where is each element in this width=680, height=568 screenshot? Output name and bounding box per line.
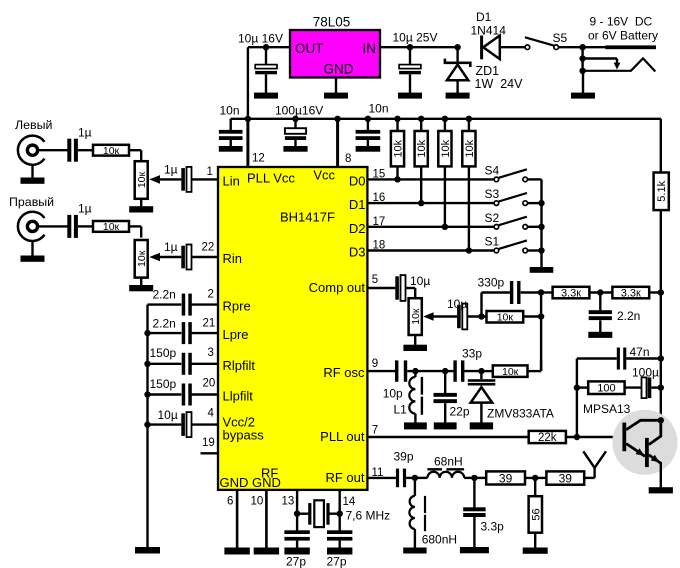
- svg-text:27p: 27p: [286, 555, 306, 568]
- ground pin 6: [224, 548, 249, 555]
- svg-text:10к: 10к: [410, 308, 422, 325]
- ground RCA left: [21, 165, 45, 184]
- resistor 100: [588, 381, 624, 394]
- wire rail to 3.3к: [541, 291, 553, 293]
- svg-text:1µ: 1µ: [164, 240, 178, 254]
- svg-text:RF osc: RF osc: [323, 365, 365, 380]
- wire 78L05 IN: [380, 46, 458, 48]
- svg-text:7,6 MHz: 7,6 MHz: [346, 509, 391, 523]
- svg-text:Vcc: Vcc: [313, 168, 335, 183]
- svg-text:47n: 47n: [630, 345, 650, 359]
- svg-text:10: 10: [251, 496, 264, 508]
- wire varactor 10к left: [481, 370, 492, 372]
- wire to pin 22 Rin: [192, 256, 219, 258]
- resistor 10k pull-up D3: [462, 119, 476, 251]
- wire junction to 39 resistor: [474, 477, 486, 479]
- svg-text:39: 39: [499, 471, 513, 485]
- resistor 39 first: [486, 471, 525, 485]
- wire rail below 5.1k: [660, 210, 662, 420]
- label MPSA13: [583, 402, 631, 416]
- capacitor 3.3p: [463, 478, 485, 548]
- node D2 junction: [442, 224, 448, 230]
- svg-text:S4: S4: [485, 164, 500, 178]
- svg-text:39p: 39p: [394, 450, 414, 464]
- capacitor 1µ input right: [67, 215, 78, 238]
- inductor 68nH: [415, 469, 475, 478]
- label L1: [394, 403, 408, 417]
- pin number 7: [372, 425, 378, 437]
- label ZMV833ATA: [487, 407, 554, 421]
- svg-text:2.2n: 2.2n: [153, 288, 176, 302]
- label 1µ input left: [78, 126, 92, 140]
- node junction base: [574, 434, 580, 440]
- antenna: [583, 451, 606, 478]
- ground 27p pin 14: [327, 548, 352, 555]
- svg-text:11: 11: [372, 467, 384, 479]
- capacitor 22p: [434, 371, 457, 423]
- svg-text:1N414: 1N414: [471, 24, 507, 38]
- node rail junction 10к: [538, 313, 544, 319]
- svg-text:ZD1: ZD1: [476, 64, 500, 78]
- pin label RF osc: [323, 365, 365, 380]
- label 22p: [450, 405, 470, 419]
- pin number 9: [372, 358, 378, 370]
- label S4: [485, 164, 500, 178]
- power jack tip contact with arrow: [583, 59, 621, 70]
- wire pin 12 PLL Vcc: [246, 119, 249, 167]
- svg-text:15: 15: [373, 169, 386, 181]
- svg-text:S1: S1: [485, 235, 500, 249]
- capacitor 10µ 25V: [399, 47, 421, 93]
- wire RCA left to cap: [38, 149, 68, 151]
- svg-text:Llpfilt: Llpfilt: [223, 389, 254, 404]
- label 100µ16V: [275, 104, 323, 118]
- resistor 10k pull-up D0: [391, 119, 405, 180]
- label 27p pin14: [327, 555, 347, 568]
- label 33p: [462, 347, 482, 361]
- resistor 10к input left: [93, 145, 129, 157]
- svg-text:bypass: bypass: [223, 428, 265, 443]
- pin number 12: [252, 153, 265, 165]
- varactor D2 ZMV833ATA: [468, 371, 496, 423]
- node jack tip junction: [579, 55, 585, 61]
- svg-text:56: 56: [530, 508, 542, 520]
- label 39p: [394, 450, 414, 464]
- svg-text:10к: 10к: [103, 221, 120, 233]
- node Vcc rail junction 3.3к: [658, 289, 664, 295]
- wire 22p junction to 33p: [445, 370, 453, 372]
- wire to pin 1 Lin: [192, 178, 219, 180]
- svg-text:5.1k: 5.1k: [656, 180, 668, 201]
- capacitor 1µ to Lin: [181, 167, 191, 192]
- RCA connector left (Левый): [18, 136, 45, 165]
- pin label GND GND: [220, 475, 281, 490]
- label 150p pin 3: [150, 346, 177, 360]
- potentiometer wiper comp: [423, 312, 457, 321]
- potentiometer wiper left: [149, 175, 181, 184]
- capacitor 2.2n pin 2: [148, 294, 219, 316]
- label Левый: [15, 118, 53, 132]
- node junction 56: [532, 475, 538, 481]
- pin number 19: [202, 437, 215, 449]
- svg-text:78L05: 78L05: [313, 15, 351, 30]
- capacitor 10n (left): [219, 119, 243, 147]
- label 1µ input right: [78, 202, 92, 216]
- node switch common S1: [538, 247, 544, 253]
- node bus junction pin8: [334, 116, 340, 122]
- wire 39p to junction: [406, 477, 415, 479]
- wire D2 row: [367, 226, 494, 228]
- svg-text:21: 21: [203, 318, 216, 330]
- switch S4: [494, 169, 541, 181]
- node jack sleeve junction: [579, 44, 585, 50]
- ground battery jack: [571, 71, 595, 99]
- wire between 3.3к: [589, 291, 612, 293]
- potentiometer wiper right: [149, 253, 181, 262]
- label 7,6 MHz: [346, 509, 391, 523]
- pin label Comp out: [309, 280, 366, 295]
- node rail junction 330p: [538, 289, 544, 295]
- label 10p: [383, 387, 403, 401]
- pin number 5: [372, 274, 378, 286]
- label 10µ 25V: [393, 31, 438, 45]
- capacitor 10µ comp 2: [457, 304, 467, 330]
- pin number 14: [343, 496, 356, 508]
- wire pin 5 Comp out: [367, 287, 395, 289]
- node junction 10u16V: [263, 44, 269, 50]
- svg-text:22p: 22p: [450, 405, 470, 419]
- svg-text:10к: 10к: [103, 145, 120, 157]
- svg-text:100: 100: [597, 383, 615, 395]
- pin 19 stub: [201, 452, 219, 454]
- wire L1 junction to 22p: [415, 370, 445, 372]
- pin label RF out: [325, 470, 364, 485]
- wire left rail: [146, 305, 148, 548]
- pin number 10: [251, 496, 264, 508]
- svg-text:10µ 25V: 10µ 25V: [393, 31, 438, 45]
- capacitor 10µ pin 4: [148, 412, 219, 437]
- resistor 3.3к right: [612, 287, 649, 300]
- pin label Lin: [223, 174, 240, 189]
- svg-text:10µ: 10µ: [158, 408, 178, 422]
- svg-text:D3: D3: [349, 245, 366, 260]
- node pin 14 junction: [337, 511, 343, 517]
- potentiometer 10к comp: [409, 298, 422, 335]
- svg-text:39: 39: [559, 471, 573, 485]
- pin number 4: [208, 408, 215, 420]
- svg-text:12: 12: [252, 153, 265, 165]
- ground L1: [404, 422, 427, 429]
- svg-text:Rpre: Rpre: [223, 299, 251, 314]
- svg-text:Comp out: Comp out: [309, 280, 366, 295]
- node D1 junction: [418, 200, 424, 206]
- svg-text:6: 6: [227, 496, 233, 508]
- pin label Rin: [223, 251, 243, 266]
- transistor Q1 (MPSA13 darlington input): [622, 420, 660, 456]
- node Vcc rail junction 47n: [658, 355, 664, 361]
- svg-text:100µ: 100µ: [632, 366, 659, 380]
- label 2.2n pin 21: [153, 317, 176, 331]
- ground pot comp: [403, 335, 427, 351]
- node jack spring junction: [579, 68, 585, 74]
- svg-text:D0: D0: [349, 174, 366, 189]
- capacitor 10µ pin5: [395, 275, 405, 301]
- wire D3 row: [367, 249, 494, 251]
- svg-text:RF out: RF out: [325, 470, 364, 485]
- pin number 13: [282, 496, 295, 508]
- resistor 3.3к left: [553, 287, 590, 300]
- label 10µ pin5: [410, 274, 430, 288]
- label 2.2n bias: [617, 309, 640, 323]
- svg-text:10к: 10к: [497, 312, 514, 324]
- inductor 680nH: [409, 478, 425, 548]
- switch S2: [494, 217, 541, 229]
- wire 100 left: [577, 386, 588, 388]
- svg-text:10µ: 10µ: [410, 274, 430, 288]
- label 1µ Lin: [164, 163, 178, 177]
- svg-text:10µ 16V: 10µ 16V: [238, 32, 283, 46]
- pin label RF (bottom): [261, 466, 278, 481]
- label 68nH: [434, 455, 463, 469]
- label or 6V Battery: [588, 29, 658, 43]
- capacitor 1µ to Rin: [181, 245, 191, 270]
- pin label D3: [349, 245, 366, 260]
- node switch common S2: [538, 224, 544, 230]
- wire RCA right to cap: [38, 225, 68, 227]
- wire feedback vertical: [576, 359, 578, 438]
- svg-text:OUT: OUT: [295, 41, 324, 56]
- label 680nH: [422, 533, 457, 547]
- node bus junction pin12: [245, 116, 251, 122]
- svg-text:68nH: 68nH: [434, 455, 463, 469]
- pin label PLL out: [320, 429, 365, 444]
- label 27p pin13: [286, 555, 306, 568]
- pin label Llpfilt: [223, 389, 254, 404]
- ground 3.3p: [460, 547, 489, 553]
- svg-text:22k: 22k: [538, 432, 557, 444]
- resistor 56: [529, 478, 543, 548]
- svg-text:7: 7: [372, 425, 378, 437]
- label 1µ Rin: [164, 240, 178, 254]
- svg-text:330p: 330p: [478, 275, 505, 289]
- potentiometer 10к right: [135, 240, 148, 278]
- svg-text:20: 20: [203, 378, 216, 390]
- capacitor 27p pin 14: [327, 514, 352, 548]
- power jack sleeve contact: [605, 45, 656, 49]
- potentiometer 10к left: [135, 161, 148, 199]
- capacitor 150p pin 3: [148, 353, 219, 375]
- svg-text:BH1417F: BH1417F: [280, 210, 335, 225]
- pin label Rpre: [223, 299, 251, 314]
- wire Vcc rail right: [660, 119, 662, 174]
- pin number 22: [202, 242, 215, 254]
- label BH1417F: [280, 210, 335, 225]
- pin label Lpre: [223, 327, 249, 342]
- ground ZD1: [446, 93, 470, 99]
- capacitor 10n (right): [356, 119, 381, 147]
- pin number 2: [208, 289, 214, 301]
- wire cap to pot: [406, 288, 415, 299]
- node bus junction 10k pull-up D0: [394, 116, 400, 122]
- svg-text:Rlpfilt: Rlpfilt: [223, 358, 256, 373]
- svg-text:27p: 27p: [327, 555, 347, 568]
- pin number 21: [203, 318, 216, 330]
- svg-text:3.3к: 3.3к: [561, 288, 581, 300]
- label ZD1: [476, 64, 500, 78]
- capacitor 10p: [395, 360, 407, 381]
- capacitor 100µ: [642, 377, 661, 398]
- ground 10n right: [356, 146, 381, 152]
- ground pin 10: [254, 548, 279, 555]
- svg-text:18: 18: [373, 240, 386, 252]
- svg-text:S5: S5: [553, 31, 568, 45]
- switch S1: [494, 240, 541, 252]
- svg-text:10k: 10k: [440, 139, 452, 157]
- pin number 16: [373, 192, 386, 204]
- wire cap2 to 10к: [468, 315, 487, 317]
- ground RCA right: [21, 241, 45, 262]
- ground 680nH: [403, 548, 426, 554]
- node D0 junction: [394, 176, 400, 182]
- node junction 3.3p: [471, 475, 477, 481]
- wire jack vertical: [581, 47, 583, 72]
- pin number 6: [227, 496, 233, 508]
- label 10µ comp2: [447, 297, 467, 311]
- node junction 10u25V: [407, 44, 413, 50]
- ground switch common: [530, 267, 554, 273]
- ground 10n left: [219, 146, 243, 152]
- wire cap to resistor right: [78, 225, 93, 227]
- pin 14 wire: [339, 490, 341, 514]
- pin label Vcc: [313, 168, 335, 183]
- pin number 20: [203, 378, 216, 390]
- node bus junction 10n right: [365, 116, 371, 122]
- capacitor 150p pin 20: [148, 384, 219, 406]
- capacitor 33p: [453, 360, 464, 381]
- ground 78L05 GND: [324, 78, 348, 99]
- pin label D2: [349, 221, 366, 236]
- wire 33p to varactor: [464, 370, 481, 372]
- resistor 10k pull-up D1: [415, 119, 429, 203]
- node junction 100 resistor: [574, 384, 580, 390]
- capacitor 10µ 16V: [255, 47, 277, 93]
- diode D1 1N414: [482, 36, 526, 60]
- switch S3: [494, 193, 541, 205]
- zener diode ZD1: [445, 47, 470, 93]
- svg-text:33p: 33p: [462, 347, 482, 361]
- resistor 39 second: [546, 471, 584, 485]
- svg-text:10к: 10к: [136, 171, 148, 188]
- svg-text:Lpre: Lpre: [223, 327, 249, 342]
- svg-text:10n: 10n: [220, 104, 240, 118]
- label 78L05: [313, 15, 351, 30]
- wire 22k to base: [566, 436, 623, 438]
- svg-text:13: 13: [282, 496, 295, 508]
- node left rail junction pin 21: [144, 330, 150, 336]
- svg-text:680nH: 680nH: [422, 533, 457, 547]
- svg-text:17: 17: [373, 216, 386, 228]
- label 10µ 16V: [238, 32, 283, 46]
- node bus junction 10k pull-up D1: [418, 116, 424, 122]
- wire Vcc bus: [231, 118, 661, 120]
- ground 56: [523, 548, 548, 554]
- transistor Q2 (MPSA13 darlington output): [645, 420, 661, 488]
- inductor L1: [409, 371, 422, 423]
- capacitor 27p pin 13: [284, 514, 309, 548]
- svg-text:4: 4: [208, 408, 215, 420]
- svg-text:PLL Vcc: PLL Vcc: [247, 171, 295, 186]
- capacitor 1µ input left: [67, 139, 78, 162]
- node junction L1: [412, 368, 418, 374]
- svg-text:D1: D1: [349, 197, 366, 212]
- wire varactor 10к right: [528, 360, 542, 371]
- node junction comp net: [478, 313, 484, 319]
- wire bias rail vertical: [540, 293, 542, 372]
- svg-text:22: 22: [202, 242, 215, 254]
- svg-text:16: 16: [373, 192, 386, 204]
- svg-text:Lin: Lin: [223, 174, 240, 189]
- ground pot right: [129, 278, 153, 292]
- label 1W 24V: [475, 77, 524, 91]
- svg-text:IN: IN: [363, 41, 377, 56]
- svg-text:10к: 10к: [502, 366, 519, 378]
- pin label Vcc/2: [223, 415, 256, 430]
- pin 10 RF GND wire: [265, 490, 268, 549]
- pin label bypass: [223, 428, 265, 443]
- svg-text:Rin: Rin: [223, 251, 243, 266]
- pin label PLL Vcc: [247, 171, 295, 186]
- wire cap to resistor left: [78, 149, 93, 151]
- label S5: [553, 31, 568, 45]
- pin number 1: [207, 166, 213, 178]
- wire 100 to 100µ: [625, 386, 642, 388]
- label 10µ pin 4: [158, 408, 178, 422]
- label 330p: [478, 275, 505, 289]
- node D3 junction: [466, 247, 472, 253]
- svg-text:5: 5: [372, 274, 378, 286]
- node bus junction 100u: [292, 116, 298, 122]
- RCA connector right (Правый): [18, 212, 45, 241]
- pin number 3: [208, 347, 214, 359]
- svg-text:10k: 10k: [464, 139, 476, 157]
- label S2: [485, 211, 500, 225]
- svg-text:GND GND: GND GND: [220, 475, 281, 490]
- resistor 10к input right: [93, 221, 129, 233]
- pin number 17: [373, 216, 386, 228]
- node junction varactor: [478, 368, 484, 374]
- svg-text:2.2n: 2.2n: [153, 317, 176, 331]
- label 10n right: [369, 102, 389, 116]
- 78L05 voltage regulator U2: [290, 30, 380, 78]
- pin label Rlpfilt: [223, 358, 256, 373]
- ground emitter: [649, 487, 673, 493]
- capacitor 100µ 16V: [285, 119, 306, 147]
- node pin 13 junction: [294, 511, 300, 517]
- resistor 10к varactor: [493, 365, 528, 378]
- pin number 11: [372, 467, 384, 479]
- wire 39 to antenna: [584, 477, 594, 479]
- svg-text:100µ16V: 100µ16V: [275, 104, 323, 118]
- svg-text:10p: 10p: [383, 387, 403, 401]
- svg-text:9: 9: [372, 358, 378, 370]
- wire D0 row: [367, 178, 494, 180]
- wire pin 8 Vcc: [336, 119, 339, 167]
- svg-text:L1: L1: [394, 403, 408, 417]
- svg-text:3.3к: 3.3к: [621, 288, 641, 300]
- svg-text:1µ: 1µ: [78, 126, 92, 140]
- pin label D1: [349, 197, 366, 212]
- power jack spring contact: [583, 58, 656, 71]
